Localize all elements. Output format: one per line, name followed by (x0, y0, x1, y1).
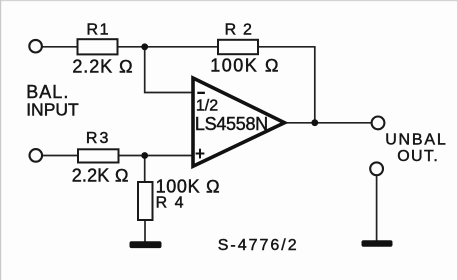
svg-text:1/2: 1/2 (196, 98, 218, 115)
wire T1 to R1 (42, 46, 77, 48)
op-amp inverting input minus sign (197, 92, 205, 94)
svg-text:R1: R1 (87, 21, 111, 38)
scan border left (0, 0, 1, 280)
svg-text:100K Ω: 100K Ω (156, 176, 221, 196)
svg-text:S-4776/2: S-4776/2 (218, 237, 299, 254)
terminal T2 (balanced input bottom) (30, 149, 43, 162)
svg-text:UNBAL: UNBAL (385, 131, 447, 148)
svg-text:INPUT: INPUT (26, 99, 79, 119)
svg-text:2.2K Ω: 2.2K Ω (72, 165, 129, 185)
wire R1 to R2 through node A (118, 46, 219, 48)
svg-text:OUT.: OUT. (397, 148, 439, 165)
svg-text:R 4: R 4 (156, 195, 185, 212)
terminal T3 (unbalanced output) (372, 117, 385, 130)
wire node B down to R4 (144, 156, 146, 183)
op-amp non-inverting input plus sign (196, 149, 205, 159)
op-amp U1 triangle (193, 78, 285, 166)
svg-text:LS4558N: LS4558N (195, 114, 268, 134)
node C junction dot (311, 119, 318, 126)
resistor R2 (218, 40, 258, 54)
wire T2 to R3 (42, 155, 78, 157)
node B junction dot (141, 152, 148, 159)
resistor R1 (78, 39, 118, 54)
terminal T4 (output ground reference) (370, 162, 383, 175)
wire R3 to non-inverting input through node B (119, 155, 192, 157)
svg-text:2.2K Ω: 2.2K Ω (72, 57, 133, 77)
wire R4 to ground G1 (144, 220, 146, 242)
wire node A down to inverting input (145, 47, 192, 93)
svg-text:100K Ω: 100K Ω (210, 56, 280, 76)
ground G1 (130, 241, 162, 248)
svg-text:R 2: R 2 (225, 21, 254, 38)
node A junction dot (141, 43, 148, 50)
resistor R3 (78, 149, 119, 162)
wire op-amp output to T3 through node C (283, 122, 372, 124)
wire T4 down to ground G2 (376, 175, 378, 241)
terminal T1 (balanced input top) (29, 40, 42, 53)
wire R2 to node C (feedback) (258, 47, 315, 123)
svg-text:R3: R3 (86, 130, 110, 147)
scan border top (0, 0, 457, 1)
resistor R4 (138, 182, 153, 220)
ground G2 (362, 240, 393, 246)
